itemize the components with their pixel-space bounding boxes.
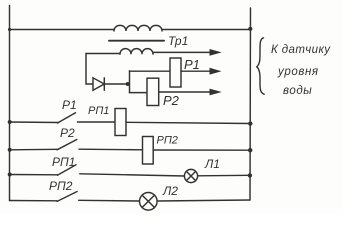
svg-text:РП2: РП2 xyxy=(49,179,73,193)
svg-text:Л2: Л2 xyxy=(162,184,178,198)
rung 1 wire middle xyxy=(78,121,116,123)
contact РП2 xyxy=(57,192,77,202)
right rail xyxy=(249,8,252,200)
wire P1 to sensor arrow 2 xyxy=(181,70,212,72)
rung 4 wire right xyxy=(157,200,250,201)
svg-text:воды: воды xyxy=(283,85,312,97)
svg-text:Р2: Р2 xyxy=(60,126,75,140)
relay coil РП1 xyxy=(115,109,126,136)
wire node to relay coil P1 xyxy=(130,70,171,72)
relay coil P1 xyxy=(170,58,181,87)
contact РП1 xyxy=(57,165,76,175)
rung 2 wire right xyxy=(153,149,250,151)
svg-text:уровня: уровня xyxy=(277,66,319,78)
wire secondary to sensor arrow 1 xyxy=(153,51,212,53)
junction dot diode node xyxy=(126,82,130,86)
lamp Л1 xyxy=(184,169,197,182)
transformer Tr1 secondary coil xyxy=(120,49,153,55)
node vertical wire xyxy=(129,71,131,93)
svg-text:РП1: РП1 xyxy=(52,155,75,169)
svg-text:Р1: Р1 xyxy=(184,57,200,72)
junction dot rung2 left xyxy=(8,148,12,152)
wire secondary left loop xyxy=(86,54,120,85)
junction dot top wire right rail xyxy=(248,27,252,31)
rung 1 wire right xyxy=(126,122,250,123)
left rail xyxy=(9,6,11,201)
relay coil РП2 xyxy=(143,137,154,165)
junction dot rung1 right xyxy=(248,121,252,125)
svg-text:К датчику: К датчику xyxy=(271,44,331,56)
rung 2 wire left xyxy=(10,148,58,151)
rung 1 wire left xyxy=(10,121,59,124)
junction dot rung2 right xyxy=(248,148,252,152)
svg-text:Тр1: Тр1 xyxy=(168,34,188,48)
wire node to relay coil P2 xyxy=(130,92,148,94)
junction dot top wire left rail xyxy=(8,28,11,31)
junction dot rung1 left xyxy=(8,120,12,124)
top supply wire xyxy=(10,29,251,31)
svg-text:Л1: Л1 xyxy=(204,157,220,171)
rung 2 wire middle xyxy=(79,148,143,151)
rung 3 wire right xyxy=(198,174,250,177)
diode VD xyxy=(93,78,104,91)
rung 3 wire left xyxy=(10,174,59,176)
contact P1 xyxy=(58,113,76,123)
junction dot rung3 left xyxy=(8,173,12,177)
svg-text:РП1: РП1 xyxy=(88,105,109,117)
rung 4 wire left xyxy=(10,200,58,202)
junction dot rung3 right xyxy=(248,173,252,177)
transformer Tr1 core xyxy=(109,40,164,42)
relay coil P2 xyxy=(147,78,159,105)
lamp Л2 xyxy=(140,193,158,211)
svg-text:Р1: Р1 xyxy=(62,98,77,112)
transformer Tr1 primary coil xyxy=(114,25,162,31)
rung 3 wire middle xyxy=(80,174,185,176)
svg-text:РП2: РП2 xyxy=(157,135,178,147)
wire diode to node xyxy=(104,83,129,85)
rung 4 wire middle xyxy=(79,199,140,202)
svg-text:Р2: Р2 xyxy=(163,93,180,108)
wire P2 to sensor arrow 3 xyxy=(159,91,212,93)
brace to sensor xyxy=(257,38,264,95)
contact P2 xyxy=(57,140,77,150)
